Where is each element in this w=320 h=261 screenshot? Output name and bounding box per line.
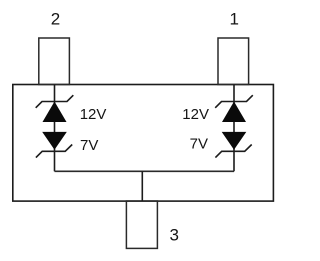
svg-text:2: 2 (51, 10, 60, 29)
wire right branch (233, 85, 235, 172)
pin 3 box (126, 201, 157, 248)
pin 1 box (218, 38, 249, 85)
svg-text:7V: 7V (190, 135, 208, 152)
package body U1 (13, 85, 274, 202)
wire stub to pin 3 (141, 171, 143, 201)
zener diode D2 7V left (36, 132, 72, 158)
zener diode D3 12V right (215, 95, 253, 122)
pin 2 box (39, 38, 70, 85)
zener diode D4 7V right (215, 132, 251, 158)
svg-text:3: 3 (170, 226, 179, 245)
svg-text:12V: 12V (80, 106, 107, 123)
wire left branch (54, 85, 56, 172)
svg-text:1: 1 (229, 10, 238, 29)
zener diode D1 12V left (36, 95, 74, 122)
svg-text:12V: 12V (182, 106, 209, 123)
wire bus bottom (55, 170, 235, 172)
svg-text:7V: 7V (80, 137, 98, 154)
